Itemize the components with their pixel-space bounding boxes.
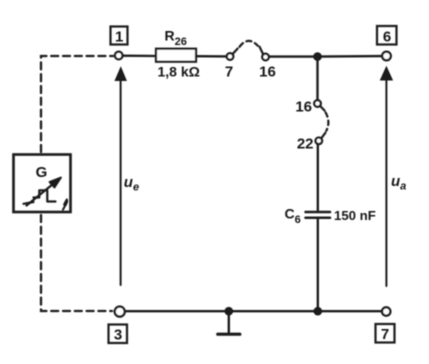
switch tail contact 16 (right) <box>320 106 325 111</box>
capacitor C6 <box>306 212 331 218</box>
label 7 (terminal) <box>376 324 395 343</box>
wire resistor to contact 7 <box>196 55 227 58</box>
label 1 <box>111 27 128 46</box>
svg-text:6: 6 <box>383 29 391 46</box>
ground <box>218 311 240 334</box>
wire contact 22 to capacitor <box>317 144 319 211</box>
switch tail contact 7 <box>232 49 237 55</box>
wire dashed generator to terminal 3 <box>41 215 112 311</box>
wire dashed generator to terminal 1 <box>41 56 113 152</box>
resistor R26 <box>156 49 196 62</box>
svg-text:16: 16 <box>295 98 312 115</box>
terminal 7 <box>382 307 390 315</box>
wire capacitor to bottom node <box>317 219 319 311</box>
node ground junction <box>225 307 233 315</box>
svg-text:1: 1 <box>115 29 123 46</box>
node top junction <box>314 53 322 61</box>
label 6 <box>377 26 397 46</box>
switch tail contact 16 <box>260 47 264 55</box>
generator G <box>14 155 71 213</box>
node bottom junction <box>314 307 322 315</box>
svg-text:22: 22 <box>297 135 314 152</box>
switch tail contact 22 <box>321 133 325 139</box>
svg-text:3: 3 <box>114 327 122 344</box>
switch contact 7 <box>227 53 234 60</box>
switch dashed arc 16-22 <box>326 113 329 131</box>
wire contact 16 to node <box>269 55 318 57</box>
svg-text:7: 7 <box>225 64 233 81</box>
svg-text:16: 16 <box>259 64 276 81</box>
switch contact 16 (right branch) <box>314 100 321 107</box>
svg-text:7: 7 <box>381 326 389 343</box>
wire node down to contact 16 <box>316 57 318 101</box>
switch dashed arc 7-16 <box>240 41 258 47</box>
label 3 <box>109 325 128 344</box>
svg-text:1,8 kΩ: 1,8 kΩ <box>158 64 200 80</box>
switch contact 16 <box>262 54 269 61</box>
terminal 6 <box>382 52 391 61</box>
terminal 3 <box>115 307 125 317</box>
wire node to terminal 6 <box>318 55 383 58</box>
arrow ue <box>115 68 126 286</box>
arrow ua <box>381 67 393 286</box>
terminal 1 <box>115 52 123 60</box>
switch contact 22 <box>316 138 323 145</box>
wire terminal 1 to resistor <box>123 55 156 58</box>
svg-text:150 nF: 150 nF <box>334 208 376 223</box>
svg-text:G: G <box>36 164 48 181</box>
wire bottom rail <box>125 310 382 312</box>
